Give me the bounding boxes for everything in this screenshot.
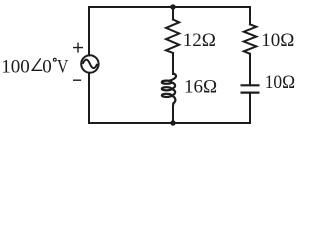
wire left vertical lower	[88, 73, 90, 123]
junction node top	[170, 4, 175, 9]
svg-text:V: V	[57, 56, 69, 77]
label C1 10ohm	[265, 72, 295, 93]
label source 0	[42, 56, 52, 77]
source V1 circle	[81, 55, 98, 72]
inductor L1 16ohm coil	[162, 73, 176, 106]
svg-text:16Ω: 16Ω	[184, 77, 217, 98]
source minus sign	[73, 79, 81, 81]
wire middle between R1 and L1	[172, 53, 174, 74]
wire top horizontal	[89, 6, 250, 8]
label R2 10ohm	[261, 30, 294, 51]
source V1 sine	[83, 60, 98, 69]
junction node bottom	[170, 120, 175, 125]
svg-text:10Ω: 10Ω	[261, 30, 294, 51]
resistor R2 10ohm zigzag	[244, 24, 256, 54]
label source angle symbol	[32, 58, 42, 70]
label L1 16ohm	[184, 77, 217, 98]
capacitor C1 top plate	[241, 84, 260, 86]
wire right between R2 and C1	[249, 54, 251, 85]
wire middle branch lower stub	[172, 106, 174, 123]
label source V unit	[57, 56, 69, 77]
label R1 12ohm	[183, 30, 216, 51]
svg-text:0: 0	[42, 56, 52, 77]
label source degree symbol	[53, 58, 56, 61]
wire bottom horizontal	[89, 122, 250, 124]
source plus sign	[73, 43, 83, 53]
resistor R1 12ohm zigzag	[166, 20, 179, 54]
wire right vertical upper stub	[249, 7, 251, 24]
wire left vertical upper	[88, 7, 90, 55]
svg-text:10Ω: 10Ω	[265, 72, 295, 93]
label source magnitude 100	[1, 56, 30, 77]
svg-text:100: 100	[1, 56, 30, 77]
wire middle branch upper stub	[172, 7, 174, 20]
wire right branch lower stub	[249, 93, 251, 123]
capacitor C1 bottom plate	[241, 91, 260, 93]
svg-text:12Ω: 12Ω	[183, 30, 216, 51]
